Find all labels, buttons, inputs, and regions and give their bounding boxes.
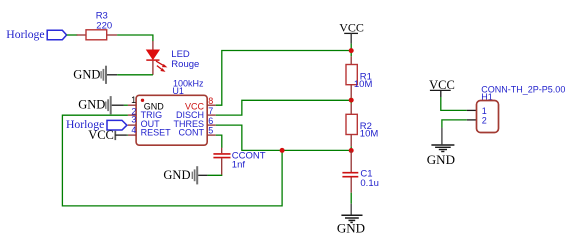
wire H1 pin 2 to GND — [442, 120, 467, 128]
svg-text:GND: GND — [163, 168, 190, 182]
svg-text:CONT: CONT — [179, 128, 205, 138]
pin 1 stub — [128, 104, 136, 106]
ground GND (at pin 1) — [78, 96, 124, 114]
ground GND (below CCONT) — [163, 166, 207, 184]
ground GND (H1) — [427, 128, 455, 167]
pin-1 marker dot — [141, 99, 144, 102]
svg-text:U1: U1 — [172, 86, 184, 96]
pin 7 stub — [207, 114, 216, 116]
capacitor CCONT — [213, 148, 265, 175]
wire R3 to LED — [117, 35, 153, 41]
H1 pin 2 stub — [467, 119, 477, 121]
IC U1 body — [136, 95, 207, 145]
wire GND to pin 1 — [124, 104, 128, 106]
capacitor C1 — [342, 151, 379, 193]
resistor R2 — [346, 104, 378, 147]
resistor R3 — [77, 10, 118, 39]
svg-text:Rouge: Rouge — [171, 59, 199, 70]
wire port to R3 — [67, 34, 78, 36]
svg-text:10M: 10M — [360, 128, 379, 139]
power VCC (at pin 4 RESET) — [88, 128, 127, 142]
svg-text:VCC: VCC — [88, 128, 114, 142]
svg-text:VCC: VCC — [339, 20, 364, 34]
wire at DISCH junction — [350, 97, 352, 103]
svg-text:CONN-TH_2P-P5.00: CONN-TH_2P-P5.00 — [481, 84, 565, 94]
svg-text:GND: GND — [427, 152, 455, 167]
junction (VCC rail / pin 8) — [349, 48, 354, 53]
pin 3 stub — [128, 124, 136, 126]
svg-text:0.1u: 0.1u — [360, 178, 379, 189]
wire pin 7 DISCH to rail — [216, 100, 352, 115]
wire GND to LED cathode — [117, 74, 153, 76]
svg-text:8: 8 — [208, 96, 213, 106]
wire pin 5 CONT down to CCONT — [216, 135, 222, 148]
svg-text:Horloge: Horloge — [6, 28, 44, 41]
svg-text:GND: GND — [78, 98, 105, 112]
port Horloge (at pin 3 OUT) — [66, 118, 127, 131]
ground GND (at LED cathode) — [73, 66, 117, 84]
svg-text:6: 6 — [208, 116, 213, 126]
wire pin 8 VCC up to rail — [216, 51, 352, 106]
junction (TRIG loop / THRES line) — [280, 148, 285, 153]
svg-text:4: 4 — [131, 125, 136, 135]
svg-text:GND: GND — [337, 221, 365, 236]
wire TRIG loop (pin 2 - bottom - THRES net) — [62, 115, 282, 206]
pin 4 stub — [128, 134, 136, 136]
op-amp/timer U1 label — [172, 79, 204, 96]
svg-text:RESET: RESET — [141, 128, 172, 138]
svg-text:7: 7 — [208, 106, 213, 116]
svg-text:2: 2 — [482, 115, 487, 125]
ground GND (below C1) — [337, 204, 365, 236]
pin 2 stub — [128, 114, 136, 116]
wire at THRES junction — [350, 147, 352, 151]
pin 5 stub — [207, 134, 216, 136]
svg-text:3: 3 — [131, 114, 136, 124]
wire VCC to junction — [350, 44, 352, 57]
svg-text:220: 220 — [96, 20, 112, 31]
wire VCC to H1 pin 1 — [441, 97, 467, 110]
power VCC (top rail) — [339, 20, 364, 43]
resistor R1 — [346, 56, 372, 97]
H1 pin 1 stub — [467, 109, 477, 111]
wire VCC to pin 4 — [126, 134, 129, 136]
svg-text:1nf: 1nf — [232, 160, 246, 171]
pin 8 stub — [207, 104, 216, 106]
svg-text:5: 5 — [208, 125, 213, 135]
junction (R1 / R2 / DISCH) — [349, 98, 354, 103]
pin 6 stub — [207, 124, 216, 126]
wire pin 6 THRES to rail — [216, 125, 352, 150]
connector H1 — [477, 84, 566, 132]
junction (R2 / C1 / THRES) — [349, 148, 354, 153]
port Horloge (input, top-left) — [6, 28, 66, 41]
svg-text:1: 1 — [131, 95, 136, 105]
wire CCONT to GND — [207, 174, 221, 177]
svg-text:GND: GND — [73, 68, 100, 82]
power VCC (H1) — [429, 78, 455, 97]
wire C1 to GND — [350, 193, 352, 204]
svg-text:10M: 10M — [354, 79, 373, 90]
LED Rouge D? — [146, 41, 199, 75]
